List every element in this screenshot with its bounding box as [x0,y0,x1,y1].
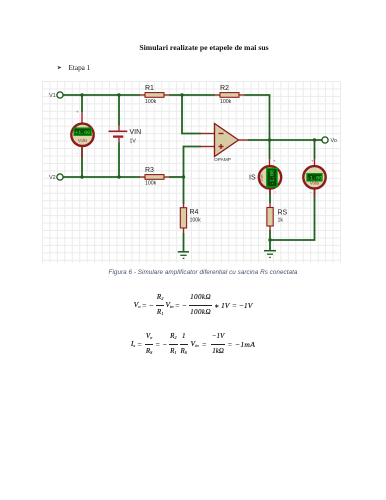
svg-text:V2: V2 [49,175,56,181]
svg-text:R4: R4 [190,209,199,216]
svg-text:V1: V1 [49,93,56,99]
svg-text:Volts: Volts [78,138,87,143]
svg-text:-1.00: -1.00 [270,170,276,185]
svg-text:100k: 100k [190,217,202,223]
svg-text:+: + [311,158,314,163]
svg-text:IS: IS [249,174,256,181]
svg-text:VIN: VIN [130,129,142,136]
svg-text:1V: 1V [130,138,137,144]
svg-text:RS: RS [278,209,288,216]
svg-text:R3: R3 [145,167,154,174]
svg-text:100k: 100k [220,99,232,105]
svg-text:+1.00: +1.00 [75,129,91,136]
svg-text:Volts: Volts [310,180,319,185]
svg-text:Vo: Vo [331,138,337,144]
svg-text:+: + [273,158,276,163]
svg-text:OPAMP: OPAMP [214,157,231,163]
svg-text:100k: 100k [145,180,157,186]
svg-text:100k: 100k [145,99,157,105]
svg-text:1k: 1k [278,217,284,223]
svg-text:R2: R2 [220,85,229,92]
svg-text:mA: mA [259,174,264,180]
svg-text:+: + [76,109,79,114]
svg-text:R1: R1 [145,85,154,92]
